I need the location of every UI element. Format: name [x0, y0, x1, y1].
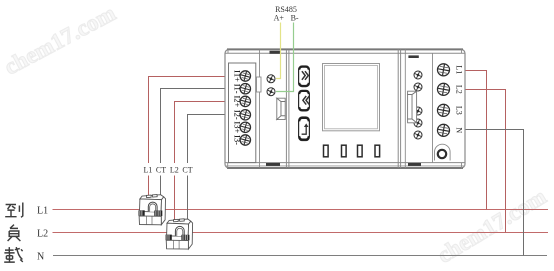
- seal ring: [438, 150, 446, 158]
- bottom rail clip left (dark): [266, 163, 280, 166]
- terminal I2-: [240, 110, 250, 120]
- chinese ZAI (carry): [4, 247, 23, 262]
- wire N (dark, meter right to bottom N): [464, 130, 524, 256]
- LCD display inner: [325, 66, 378, 129]
- wire I2- (dark, meter to CT2): [188, 115, 226, 164]
- svg-text:CT: CT: [156, 166, 166, 175]
- bottom rail clip right (dark): [408, 163, 421, 166]
- left channel tab: [257, 77, 262, 92]
- terminal I3+: [240, 122, 250, 132]
- aux terminal 3: [414, 107, 422, 115]
- terminal RS485 B-: [267, 88, 275, 96]
- svg-text:I1+: I1+: [233, 70, 243, 82]
- wire RS485 A+ (yellow): [276, 23, 281, 79]
- meter top band tick right: [461, 49, 463, 53]
- seal dome: [435, 144, 451, 160]
- meter top band tick left: [227, 49, 229, 53]
- chinese DAO (to): [5, 203, 23, 218]
- wire I1- (dark, meter to CT1): [161, 89, 226, 164]
- top rail clip left (dark): [270, 51, 282, 54]
- svg-text:L1: L1: [144, 166, 153, 175]
- meter bottom band tick left: [227, 163, 229, 169]
- aux terminal 1: [414, 71, 422, 79]
- CT1 (current transformer on L1): [139, 195, 166, 225]
- meter bottom band line: [225, 162, 465, 164]
- indicator slot 4: [375, 145, 380, 157]
- wire L1 (red, meter right to bottom L1): [464, 71, 487, 210]
- terminal L2: [438, 83, 450, 95]
- svg-text:I3+: I3+: [233, 121, 243, 133]
- svg-text:I1-: I1-: [233, 84, 243, 94]
- bottom line L2 (red): [53, 232, 549, 234]
- top rail clip right (dark): [408, 55, 418, 58]
- right section inner divider: [432, 53, 434, 162]
- wire I1+ (red, meter to CT1): [149, 77, 226, 164]
- indicator slot 2: [342, 145, 347, 157]
- svg-text:I2-: I2-: [233, 110, 243, 120]
- divider left section: [285, 50, 287, 168]
- bottom line N (gray): [53, 255, 547, 257]
- button enter: [299, 117, 310, 140]
- indicator slot 1: [324, 145, 329, 157]
- LCD display outer: [323, 64, 380, 131]
- terminal I2+: [240, 96, 250, 106]
- clip bracket right section (3D): [408, 91, 417, 123]
- svg-text:L3: L3: [455, 106, 464, 115]
- meter bottom band tick right: [461, 163, 463, 169]
- chinese FU (load): [8, 225, 21, 241]
- CT2 (current transformer on L2): [166, 219, 193, 249]
- wire L2 (red, meter right to bottom L2): [464, 90, 506, 233]
- button up (>>): [299, 66, 310, 87]
- svg-text:A+: A+: [274, 13, 285, 22]
- svg-text:B-: B-: [291, 13, 299, 22]
- aux terminal 4: [414, 119, 422, 127]
- svg-text:L2: L2: [37, 229, 48, 240]
- left terminal box: [229, 63, 256, 163]
- svg-text:N: N: [455, 127, 464, 133]
- aux terminal 2: [414, 83, 422, 91]
- left inner channel line: [259, 50, 261, 168]
- svg-text:N: N: [37, 252, 44, 263]
- wire RS485 B- (green): [276, 23, 294, 92]
- clip bracket left section (3D): [277, 98, 285, 119]
- terminal L1: [438, 64, 450, 76]
- svg-text:I3-: I3-: [233, 135, 243, 145]
- svg-text:L1: L1: [455, 65, 464, 74]
- svg-text:L2: L2: [455, 85, 464, 94]
- terminal L3: [438, 104, 450, 116]
- indicator slot 3: [358, 145, 363, 157]
- svg-text:I2+: I2+: [233, 95, 243, 107]
- svg-text:L2: L2: [170, 166, 179, 175]
- aux terminal 5: [414, 131, 422, 139]
- terminal I1-: [240, 84, 250, 94]
- watermark top-left: [0, 0, 119, 79]
- meter top band line: [225, 52, 465, 54]
- bottom line L1 (red): [53, 209, 549, 211]
- wire I2+ (red, meter to CT2): [175, 102, 226, 164]
- svg-text:CT: CT: [182, 166, 192, 175]
- terminal N: [438, 124, 450, 136]
- terminal RS485 A+: [267, 75, 275, 83]
- meter body outline: [225, 49, 465, 168]
- terminal I1+: [240, 71, 250, 81]
- divider right section: [397, 49, 399, 168]
- watermark bottom-right: [433, 184, 550, 268]
- button down (<<): [299, 90, 310, 111]
- terminal I3-: [240, 135, 250, 145]
- svg-text:chem17.com: chem17.com: [0, 0, 119, 79]
- svg-text:L1: L1: [37, 206, 48, 217]
